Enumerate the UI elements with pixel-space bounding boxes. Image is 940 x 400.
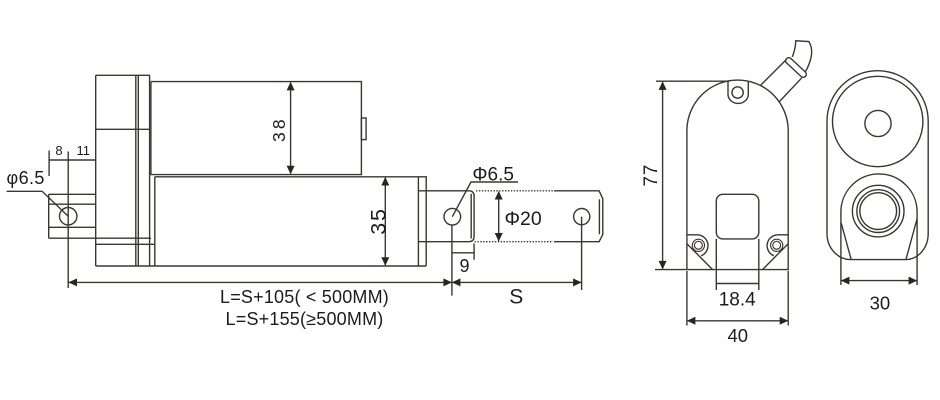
svg-text:77: 77 [641, 164, 662, 187]
svg-text:18.4: 18.4 [719, 290, 756, 311]
svg-text:L=S+155(≥500MM): L=S+155(≥500MM) [226, 309, 384, 329]
svg-text:L=S+105( < 500MM): L=S+105( < 500MM) [220, 287, 389, 307]
svg-text:40: 40 [728, 325, 749, 346]
svg-text:S: S [509, 285, 523, 308]
svg-text:9: 9 [459, 256, 469, 276]
svg-text:11: 11 [76, 143, 90, 158]
svg-text:φ6.5: φ6.5 [7, 168, 45, 188]
svg-text:Φ20: Φ20 [505, 208, 542, 230]
svg-text:Φ6.5: Φ6.5 [472, 165, 514, 186]
svg-text:8: 8 [55, 143, 62, 158]
svg-text:35: 35 [367, 207, 391, 235]
svg-text:30: 30 [870, 292, 891, 313]
svg-text:38: 38 [269, 116, 289, 142]
